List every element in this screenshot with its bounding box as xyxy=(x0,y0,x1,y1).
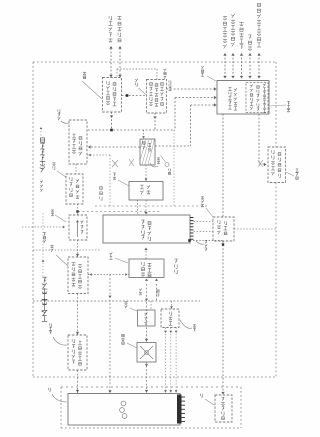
block 11b inner text col1 xyxy=(107,81,109,85)
cross mark b xyxy=(129,159,134,166)
engine unit dashed box left edge xyxy=(60,387,62,428)
wire y146 hatched to riser xyxy=(155,145,191,147)
block 14b inner text col2 xyxy=(147,185,150,189)
arrow x146 down at bus xyxy=(145,299,148,301)
wire block2 top riser xyxy=(156,69,158,80)
label leader arrow upper-left xyxy=(40,128,42,137)
junction dot on wire block1-block2 xyxy=(126,94,129,97)
label 11b leader xyxy=(82,81,102,99)
external line wire 2 down arrow xyxy=(118,75,121,78)
block 112 inner text col2 xyxy=(76,179,79,183)
junction dot x223 below N xyxy=(222,243,224,245)
block 102 selector xyxy=(69,215,87,240)
arrow mixer into reader xyxy=(145,390,148,393)
label 13c leader xyxy=(270,105,286,106)
arrow into IO block y97 xyxy=(214,96,217,99)
wire bus to RAM x151 xyxy=(150,301,152,310)
I/O device wire 1 xyxy=(224,54,226,78)
block 110 right edge pins xyxy=(190,218,194,240)
block 11c codec xyxy=(147,80,167,114)
block 14b inner text col1 xyxy=(140,185,144,189)
wire y155 from ROM xyxy=(87,154,110,156)
I/O device wire 5 up arrow xyxy=(257,53,260,56)
wire y206 dashed xyxy=(95,205,207,207)
memory bus wire 2 xyxy=(170,328,172,394)
label 11a leader xyxy=(286,172,294,176)
block 110 inner text col1 xyxy=(141,220,144,224)
label 102 xyxy=(51,210,54,213)
label 13b leader xyxy=(207,76,216,81)
memory bus wire 1 bottom arrow xyxy=(164,390,167,392)
block 1 connector ticks xyxy=(182,397,186,422)
label 110 leader xyxy=(196,241,204,244)
I/O device label 2 (vertical text) xyxy=(231,14,235,18)
block 10b controller xyxy=(68,257,88,294)
arrow x146 into mixer xyxy=(145,339,148,342)
junction circle mark xyxy=(165,163,169,167)
outer box name label upper (vertical text) xyxy=(40,138,44,142)
block 117 ROM xyxy=(69,120,87,164)
arrow x110 into reader block xyxy=(108,390,111,393)
arrow into ROM y147 xyxy=(88,145,91,148)
block 117 inner text col1 xyxy=(72,134,76,138)
block 13 left text col1 xyxy=(228,87,231,90)
I/O device wire 3 up arrow xyxy=(240,53,243,56)
label 11c leader xyxy=(139,88,147,95)
arrow into IO block y105 xyxy=(214,103,217,106)
I/O device wire 3 down arrow xyxy=(240,76,243,79)
memory bus wire 3 top arrow xyxy=(175,331,178,333)
wire y164 to printer IF xyxy=(259,163,266,165)
label 13c xyxy=(287,101,290,104)
label 13b xyxy=(201,66,204,69)
I/O device label 3 (vertical text) xyxy=(239,22,243,26)
wire y212 dashed xyxy=(78,211,160,213)
arrow below mixer xyxy=(145,364,148,366)
wire y250 dashed xyxy=(33,249,101,251)
label 108 xyxy=(124,301,127,304)
label 105 xyxy=(109,252,112,255)
block 13 sub text col2 xyxy=(257,86,259,88)
external line wire 1 xyxy=(110,48,112,77)
block 1 inner marks xyxy=(120,401,127,418)
label 14b xyxy=(113,173,116,176)
block 110 image memory controller xyxy=(103,215,190,243)
wire NVRAM to selector xyxy=(77,204,79,215)
label 5 xyxy=(48,388,50,391)
block 108 RAM xyxy=(138,310,156,326)
arrow into IO block y89 xyxy=(214,87,217,90)
block 13 IO controller xyxy=(217,81,269,115)
label 13d small xyxy=(169,81,171,84)
wire x175 down to y206 xyxy=(173,130,175,206)
wire block1 bottom drop xyxy=(111,112,113,130)
block 110 inner text col2 xyxy=(148,222,151,225)
block 108 inner text xyxy=(144,312,147,315)
arrow into ROM y155 xyxy=(89,154,91,157)
label line-1 (vertical text) xyxy=(109,16,112,20)
wire y147 into ROM xyxy=(91,146,140,148)
wire riser x175 up xyxy=(174,98,176,131)
I/O device wire 4 up arrow xyxy=(248,53,251,56)
block 11c inner text col1 xyxy=(150,83,153,86)
block 12 FIFO hatched xyxy=(140,139,155,165)
block 112 NVRAM xyxy=(66,174,83,204)
label 11b xyxy=(83,72,86,75)
label 12 xyxy=(157,158,160,161)
label 117 xyxy=(58,109,60,112)
block 10b inner text col2 xyxy=(78,264,82,268)
junction dot y211 xyxy=(76,210,78,212)
block 13 left text col2 xyxy=(234,88,237,91)
wire CPU bottom x146 xyxy=(146,284,148,342)
block 105 inner text col1 xyxy=(142,262,145,266)
I/O device wire 2 xyxy=(232,54,234,78)
wire x223 IO to N xyxy=(222,114,224,217)
block 15b video control xyxy=(213,217,234,241)
block 107 DIMM xyxy=(161,309,179,328)
wire converter to IMAC down xyxy=(145,200,147,215)
I/O device label 5 (vertical text) xyxy=(257,3,260,6)
memory bus wire 3 bottom arrow xyxy=(175,390,178,392)
I/O device wire 5 down arrow xyxy=(257,76,260,79)
external line wire 1 down arrow xyxy=(109,75,112,78)
label 5 leader xyxy=(52,394,67,402)
memory bus wire 2 bottom arrow xyxy=(169,390,172,392)
block 103 inner text col1 xyxy=(72,339,74,343)
I/O device wire 1 up arrow xyxy=(223,53,226,56)
block 13 sub text col3 xyxy=(263,83,266,86)
I/O device label 1 (vertical text) xyxy=(223,16,227,20)
label lower leader line xyxy=(42,213,44,277)
block 103 inner text col2 xyxy=(78,341,82,345)
memory bus wire 1 xyxy=(165,328,167,394)
wire x110 drop xyxy=(109,155,111,206)
block 6 operation panel xyxy=(215,395,232,422)
wire top connection horizontal xyxy=(117,68,157,70)
block 113 mixer xyxy=(137,343,156,363)
arrow into 10b y274 xyxy=(90,273,92,276)
external line wire 1 up arrow xyxy=(109,46,112,49)
block 15b inner text col2 xyxy=(224,221,226,225)
label 10d small xyxy=(157,290,159,292)
outer dashed enclosure right edge lower xyxy=(275,183,277,378)
wire N right y229 xyxy=(234,228,276,230)
arrow external y227 xyxy=(63,226,65,229)
wire y130 horizontal xyxy=(88,129,175,131)
wire 103 to reader x77 xyxy=(77,370,79,393)
junction dot bottom right of central block xyxy=(188,239,191,242)
wire y89 block2 to IO xyxy=(167,88,217,90)
label line-2 (vertical text) xyxy=(118,16,122,20)
external line wire 2 up arrow xyxy=(118,46,121,49)
wire CPU up to central xyxy=(145,248,147,259)
label 117 leader xyxy=(61,121,69,123)
cross mark a xyxy=(112,160,118,167)
memory bus wire 2 top arrow xyxy=(169,331,172,333)
wire FIFO to converter x146 xyxy=(145,165,147,181)
wire CPU bottom x156 xyxy=(156,284,158,301)
arrow CPU into central xyxy=(144,248,147,251)
block 103 image processor xyxy=(68,335,87,370)
I/O device wire 5 xyxy=(258,54,260,78)
label 103 leader xyxy=(53,337,67,345)
I/O device wire 1 down arrow xyxy=(223,76,226,79)
outer dashed enclosure bottom edge xyxy=(33,376,276,378)
block 12 FIFO inner text xyxy=(143,142,145,144)
block 112 inner text col1 xyxy=(70,177,72,181)
arrow into CPU y274 xyxy=(125,273,127,276)
label 13a small xyxy=(164,69,167,72)
label 108 leader xyxy=(130,308,137,311)
engine unit dashed box right edge xyxy=(240,387,242,428)
label 14b leader xyxy=(118,180,129,186)
wire external y227 xyxy=(22,226,63,228)
label 107 leader xyxy=(180,320,192,328)
block 11b communication controller xyxy=(103,78,122,113)
arrow into central top xyxy=(144,212,147,215)
label small 10a xyxy=(43,232,46,235)
label 112 leader xyxy=(57,171,66,177)
outer dashed enclosure left edge xyxy=(32,62,34,377)
label 6 xyxy=(200,394,202,397)
block 13 inner subblock xyxy=(246,83,268,113)
wire x259 IO down xyxy=(258,114,260,164)
I/O device wire 4 xyxy=(249,54,251,78)
wire mixer to reader x147 xyxy=(146,362,148,393)
block 13 sub text col1 xyxy=(250,84,253,87)
block 11a printer interface xyxy=(268,147,286,183)
arrow x110 at bus xyxy=(108,296,111,298)
junction dot y130 xyxy=(110,129,113,132)
memory bus wire 1 top arrow xyxy=(164,331,167,333)
I/O device wire 3 xyxy=(241,54,243,78)
I/O device wire 2 down arrow xyxy=(231,76,234,79)
block 105 CPU xyxy=(129,259,164,278)
label 112 xyxy=(52,162,55,165)
label 10b xyxy=(50,245,53,248)
label 15b leader xyxy=(206,208,213,217)
label small near bus a xyxy=(139,289,142,292)
block 102 inner arrow xyxy=(77,221,79,237)
wire bus to DIMM x171 xyxy=(171,301,173,309)
label small below L1 xyxy=(40,181,43,184)
block 6 inner text xyxy=(222,397,225,401)
block 105 inner text col2 xyxy=(148,263,152,267)
arrow into converter top xyxy=(145,179,148,181)
I/O device wire 4 down arrow xyxy=(248,76,251,79)
label 107 xyxy=(193,324,196,327)
block 107 inner text xyxy=(169,312,171,316)
outer dashed enclosure right edge upper xyxy=(275,62,277,147)
label near junction circle xyxy=(169,169,171,172)
arrow 103 into reader xyxy=(76,390,79,393)
block 11c inner text col2 xyxy=(155,84,158,87)
label 11c xyxy=(135,79,138,82)
wire FIFO top drop xyxy=(143,130,145,139)
arrow into printer IF xyxy=(264,163,267,166)
block 15b inner text col1 xyxy=(218,220,220,224)
block 14b converter xyxy=(129,182,163,201)
wire block1-block2 xyxy=(122,95,147,97)
I/O device label 4 (vertical text) xyxy=(248,35,251,39)
wire block1 top riser xyxy=(116,69,118,78)
label 105 leader xyxy=(115,258,128,263)
label 12 leader xyxy=(150,163,158,167)
label 15b xyxy=(201,196,204,199)
wire 10b-CPU horizontal xyxy=(88,274,129,276)
block 102 inner text xyxy=(80,220,83,223)
block 10b inner text col1 xyxy=(72,262,76,266)
label 102 leader xyxy=(55,215,66,222)
block 11a inner text col1 xyxy=(272,150,274,154)
label 103 xyxy=(49,323,51,326)
wire central-N y221 xyxy=(194,221,214,223)
wire block2 bottom drop xyxy=(154,113,156,130)
arrow block1 bottom xyxy=(110,115,113,118)
label 10b leader xyxy=(56,255,68,266)
wire y105 to IO block xyxy=(191,104,217,106)
block 1 connector bar xyxy=(177,395,182,424)
wire central-N y231 xyxy=(194,231,214,233)
block 1 reader unit xyxy=(68,394,180,426)
wire central to x223 xyxy=(190,240,223,242)
block 117 inner text col2 xyxy=(79,137,82,140)
I/O device wire 2 up arrow xyxy=(231,53,234,56)
wire converter to IMAC up xyxy=(137,200,139,215)
label lower leader arrow xyxy=(42,260,45,262)
label 113 leader xyxy=(127,343,137,348)
label 11a xyxy=(295,169,298,172)
bus y301 dashed xyxy=(33,300,200,302)
memory bus wire 3 xyxy=(175,328,177,394)
block 113 cross glyph xyxy=(140,346,153,359)
arrow into 10b block xyxy=(76,254,79,257)
wire x223 N to panel xyxy=(222,241,224,395)
label FPGA beside CPU (vertical text) xyxy=(174,259,177,263)
label text beside converter xyxy=(100,187,103,190)
block 11a inner text col2 xyxy=(278,153,281,156)
external line wire 2 xyxy=(119,48,121,77)
block 11b inner text col2 xyxy=(113,83,116,86)
arrow into DIMM top xyxy=(170,306,173,308)
wire riser x190 up xyxy=(190,105,192,146)
outer box name label lower (vertical text) xyxy=(42,277,46,283)
engine unit dashed box top edge xyxy=(61,386,241,388)
label 6 leader xyxy=(205,399,214,405)
wire x110 down from y274 xyxy=(109,275,111,394)
wire selector to 10b block xyxy=(77,240,79,257)
cross mark c xyxy=(258,160,263,167)
block 11c inner text col3 xyxy=(161,83,164,86)
arrow into CPU bottom x146 xyxy=(145,279,148,281)
junction circle leader xyxy=(161,156,166,163)
label 113 xyxy=(122,334,124,336)
wire y97 to IO block xyxy=(175,97,216,99)
arrow into CPU bottom x156 xyxy=(155,279,158,281)
arrow into 103 block xyxy=(76,332,79,335)
label 110 xyxy=(205,240,208,243)
wire ROM to NVRAM xyxy=(75,164,77,174)
arrow block2 bottom xyxy=(153,116,156,119)
arrow into panel xyxy=(221,392,224,395)
wire 10b to 103 x77 xyxy=(77,294,79,336)
outer dashed enclosure (digital copier) top edge xyxy=(33,61,276,63)
engine unit dashed box bottom edge xyxy=(61,427,241,429)
